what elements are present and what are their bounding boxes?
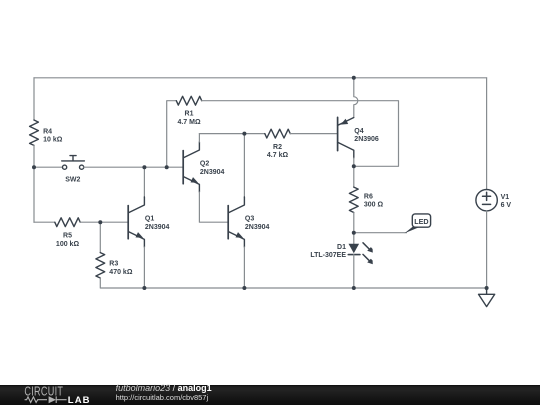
svg-text:6 V: 6 V [501,202,512,209]
svg-text:R3: R3 [109,261,118,268]
wire left rail upper [33,78,35,120]
svg-text:LED: LED [414,217,428,226]
footer bar [0,385,540,405]
wire R6 bottom lead [353,213,355,233]
transistor Q2 [183,134,228,223]
D1 light arrow 2 [363,254,373,264]
resistor R2 [265,129,290,138]
wire R2 right to Q4 base [290,133,337,135]
svg-text:4.7 kΩ: 4.7 kΩ [267,152,289,159]
wire SW2 left lead [34,166,63,168]
resistor R1 [176,96,201,105]
svg-text:R6: R6 [364,193,373,200]
svg-text:2N3904: 2N3904 [200,169,225,176]
footer title text [116,384,212,393]
node Q1 emitter bottom rail [142,286,146,290]
svg-text:470 kΩ: 470 kΩ [109,269,133,276]
wire Q4 emitter with hop over R1 wire [354,78,358,117]
svg-text:10 kΩ: 10 kΩ [43,137,63,144]
svg-text:LAB: LAB [68,395,91,405]
wire R5 right to node [80,221,128,223]
diode D1 [310,233,360,288]
wire to LED callout [354,232,407,234]
svg-text:Q1: Q1 [145,216,154,223]
switch SW2 [62,156,85,170]
svg-text:R5: R5 [63,233,72,240]
node Q4 collector junction [352,164,356,168]
transistor Q4 [338,117,379,166]
svg-text:R1: R1 [185,111,194,118]
wire R1 left leg [167,101,177,168]
svg-text:Q4: Q4 [354,128,363,135]
node bottom rail right [485,286,489,290]
svg-text:100 kΩ: 100 kΩ [56,241,80,248]
transistor Q3 [228,134,269,288]
wire left rail lower [33,167,35,222]
svg-text:SW2: SW2 [65,177,80,184]
wire right rail upper [486,78,488,190]
transistor Q1 [128,167,169,288]
label LED callout [405,214,431,233]
resistor R3 [96,253,105,278]
svg-text:2N3906: 2N3906 [354,136,379,143]
wire R3 top lead [99,222,101,252]
node R6 D1 LED junction [352,231,356,235]
resistor R5 [55,218,80,227]
wire SW2 right lead [84,166,184,168]
node Q3 collector junction [242,132,246,136]
CircuitLab logo [0,385,110,405]
svg-text:4.7 MΩ: 4.7 MΩ [177,119,201,126]
resistor R6 [349,187,358,212]
svg-text:LTL-307EE: LTL-307EE [310,252,346,259]
svg-text:CIRCUIT: CIRCUIT [24,385,63,399]
svg-text:2N3904: 2N3904 [245,224,270,231]
wire Q2 collector to R2 [199,133,264,135]
svg-text:V1: V1 [501,194,510,201]
node Q1 collector junction [142,165,146,169]
node top rail Q4 emitter [352,76,356,80]
svg-text:2N3904: 2N3904 [145,224,170,231]
wire R1 right to Q4 collector box [202,101,399,167]
svg-text:R4: R4 [43,128,52,135]
svg-text:Q2: Q2 [200,161,209,168]
node R1 junction [165,165,169,169]
svg-text:D1: D1 [337,244,346,251]
wire R3 bottom to rail [100,278,486,288]
wire right rail lower [486,211,488,288]
D1 light arrow 1 [363,243,373,253]
resistor R4 [30,120,39,145]
wire R6 top lead [353,166,355,187]
wire R5 from left rail [34,221,55,223]
ground [479,288,495,307]
svg-text:Q3: Q3 [245,216,254,223]
node R5 R3 Q1 base junction [98,220,102,224]
node D1 bottom rail [352,286,356,290]
wire R4 bottom to SW2 node [33,145,35,167]
node left SW2 junction [32,165,36,169]
svg-text:R2: R2 [273,144,282,151]
svg-text:300 Ω: 300 Ω [364,202,384,209]
wire top rail [34,77,487,79]
voltage source V1 [476,190,512,211]
node Q3 emitter bottom rail [242,286,246,290]
